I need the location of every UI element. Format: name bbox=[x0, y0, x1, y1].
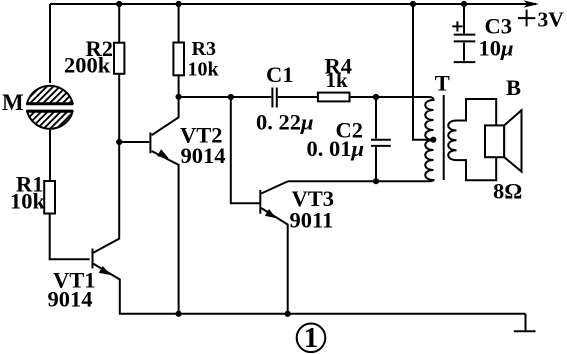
svg-text:C1: C1 bbox=[266, 62, 294, 87]
svg-text:9014: 9014 bbox=[181, 143, 226, 168]
svg-text:10k: 10k bbox=[188, 59, 220, 81]
svg-text:10k: 10k bbox=[10, 189, 46, 214]
svg-text:0. 01μ: 0. 01μ bbox=[307, 136, 365, 161]
svg-text:10μ: 10μ bbox=[479, 36, 514, 61]
svg-text:9011: 9011 bbox=[290, 208, 334, 233]
svg-text:B: B bbox=[506, 75, 521, 100]
svg-text:3V: 3V bbox=[538, 8, 565, 32]
svg-text:1k: 1k bbox=[326, 68, 349, 92]
svg-text:9014: 9014 bbox=[48, 287, 93, 312]
svg-text:M: M bbox=[2, 90, 24, 115]
svg-text:T: T bbox=[435, 71, 450, 96]
svg-text:1: 1 bbox=[304, 322, 319, 354]
svg-text:R3: R3 bbox=[192, 38, 216, 60]
svg-text:8Ω: 8Ω bbox=[493, 179, 522, 204]
svg-text:0. 22μ: 0. 22μ bbox=[256, 110, 314, 135]
svg-text:200k: 200k bbox=[64, 53, 111, 78]
